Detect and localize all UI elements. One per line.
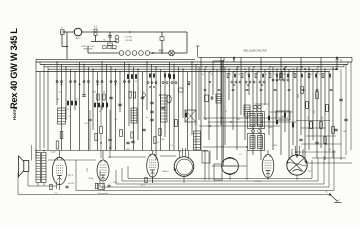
svg-text:CCH 1: CCH 1 [255, 181, 262, 183]
svg-text:MW: MW [319, 74, 322, 76]
svg-text:50000: 50000 [88, 178, 93, 180]
svg-text:4700: 4700 [92, 92, 96, 94]
svg-text:0,1: 0,1 [96, 103, 99, 105]
svg-text:25: 25 [67, 109, 69, 111]
svg-text:MW: MW [283, 74, 286, 76]
svg-text:CL 4: CL 4 [68, 175, 73, 177]
svg-text:0,1: 0,1 [59, 92, 62, 94]
svg-text:1,5 MΩ: 1,5 MΩ [125, 40, 132, 42]
svg-text:4 M: 4 M [342, 131, 346, 133]
svg-text:100: 100 [159, 51, 162, 53]
svg-text:1200: 1200 [87, 168, 89, 172]
svg-text:Horny: Horny [12, 107, 17, 120]
svg-text:Rex 40 GW W 345 L: Rex 40 GW W 345 L [9, 28, 19, 109]
svg-text:MW: MW [247, 74, 250, 76]
svg-text:MW: MW [211, 74, 214, 76]
svg-text:1 MΩ: 1 MΩ [160, 139, 165, 141]
svg-text:CF 7: CF 7 [141, 185, 147, 187]
svg-text:0,1: 0,1 [55, 193, 58, 195]
svg-text:CB 2: CB 2 [308, 171, 314, 173]
svg-text:WELLENSCHALTER: WELLENSCHALTER [243, 50, 267, 53]
svg-text:50: 50 [103, 92, 105, 94]
svg-text:0,1μF: 0,1μF [51, 152, 57, 154]
svg-text:6 A 103: 6 A 103 [68, 182, 74, 185]
svg-text:6 AM 3: 6 AM 3 [162, 170, 169, 173]
svg-text:Innenschirm: Innenschirm [98, 192, 109, 195]
svg-text:CBL 1: CBL 1 [113, 182, 120, 184]
svg-text:0,1 MΩ: 0,1 MΩ [125, 37, 132, 39]
svg-text:AZ 1: AZ 1 [75, 37, 81, 40]
